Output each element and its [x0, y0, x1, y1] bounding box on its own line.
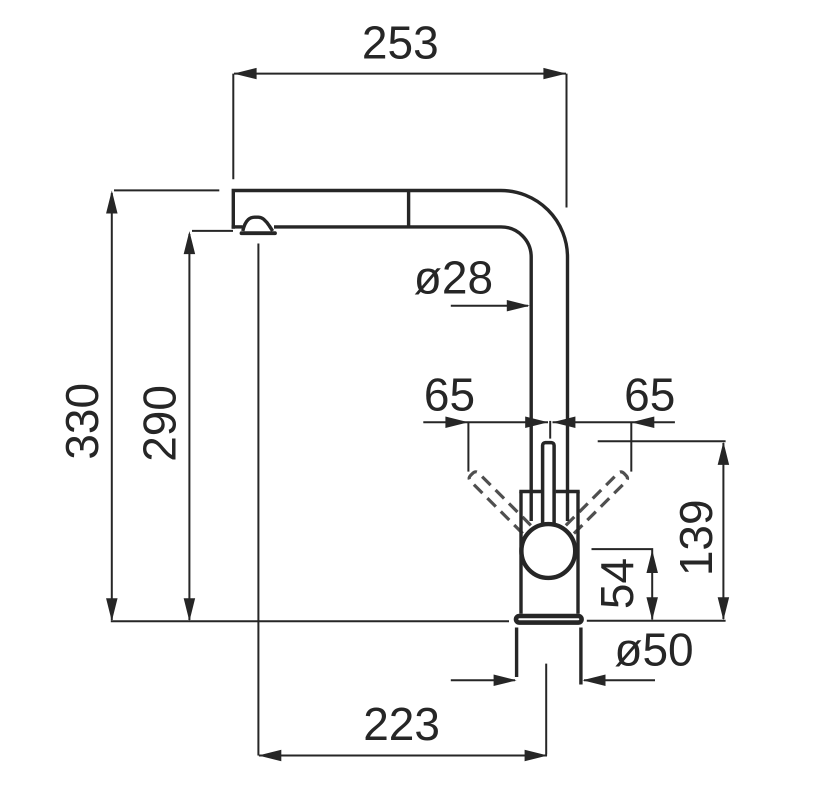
tailpiece line right	[579, 628, 582, 685]
arrow 253 right	[543, 68, 566, 79]
aerator base	[242, 231, 276, 235]
svg-text:290: 290	[134, 385, 186, 462]
arrow 290 up	[184, 231, 196, 254]
extension line 139 top	[598, 440, 726, 442]
arrow 139 down	[718, 597, 730, 620]
body right edge	[576, 492, 579, 614]
dim line 65 right	[553, 421, 675, 423]
svg-text:223: 223	[363, 698, 440, 750]
dim line 139	[722, 443, 724, 619]
svg-text:65: 65	[624, 369, 675, 421]
arrow 65 outer-right	[631, 417, 654, 429]
aerator dome	[243, 217, 273, 231]
arrow 65 centre-right	[552, 417, 575, 429]
arrow 330 up	[106, 191, 118, 214]
extension line 253 left	[232, 74, 234, 180]
svg-text:253: 253	[362, 17, 439, 69]
dim line 223	[259, 755, 547, 757]
leader arrow dia50 right	[584, 679, 655, 681]
dim line 290	[188, 234, 190, 620]
arrow 290 down	[184, 598, 196, 621]
arrow 65 centre-left	[525, 417, 548, 429]
arrow 330 down	[106, 598, 118, 621]
dim line 65 left	[423, 421, 548, 423]
svg-text:ø50: ø50	[614, 624, 693, 676]
arrow 223 left	[258, 750, 281, 762]
arrow 65 outer-left	[445, 417, 468, 429]
svg-text:65: 65	[424, 369, 475, 421]
spout bottom left segment	[232, 225, 243, 228]
leader arrow dia50 left	[451, 679, 515, 681]
dim line 330	[111, 193, 113, 620]
base plate	[516, 616, 582, 623]
body centre extension line	[545, 664, 547, 755]
dim line 54	[592, 549, 653, 619]
arrow 54 down	[646, 597, 658, 620]
arrow 223 right	[525, 750, 548, 762]
mounting surface line right	[587, 620, 726, 622]
spout outline: head left edge, top, outer bend, pipe right edge	[233, 191, 567, 522]
svg-text:330: 330	[56, 383, 108, 460]
body left edge	[519, 492, 522, 614]
spray head divider line	[407, 190, 410, 228]
arrow 253 left	[234, 68, 257, 79]
svg-text:ø28: ø28	[414, 252, 493, 304]
ball joint circle	[521, 524, 575, 578]
centre tick	[549, 421, 551, 439]
extension line 65 left	[467, 422, 469, 471]
extension line 290 top	[192, 230, 233, 232]
arrow 139 up	[718, 442, 730, 465]
body top edge right	[556, 490, 580, 493]
handle lever swung right (dashed)	[566, 470, 629, 533]
handle lever	[543, 443, 555, 527]
svg-text:54: 54	[591, 558, 643, 609]
extension line 253 right	[566, 74, 568, 208]
mounting surface line left	[111, 620, 509, 622]
extension line 330 top	[114, 189, 219, 191]
arrow 54 up	[646, 550, 658, 573]
body top edge left	[519, 490, 541, 493]
tailpiece line left	[515, 628, 518, 678]
handle lever swung left (dashed)	[468, 470, 531, 533]
extension line 65 right	[630, 422, 632, 471]
spout outlet centre line	[257, 244, 259, 756]
dim line 253	[234, 73, 566, 75]
spout bottom, inner bend, pipe left edge	[274, 227, 531, 521]
svg-text:139: 139	[670, 499, 722, 576]
leader arrow dia28	[451, 305, 528, 307]
